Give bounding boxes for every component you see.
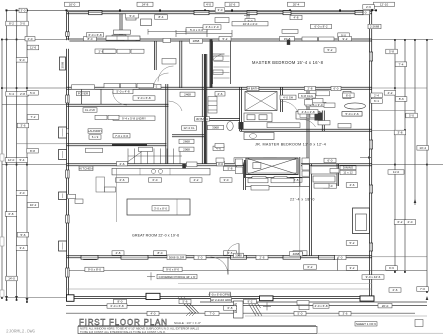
window south wall 4 bbox=[319, 255, 335, 259]
right dim box 6 bbox=[384, 91, 396, 96]
svg-text:8'-8: 8'-8 bbox=[30, 149, 35, 153]
porch step line y289 bbox=[67, 288, 373, 290]
long box row 267-300 bbox=[267, 123, 300, 128]
svg-text:3'-6: 3'-6 bbox=[343, 312, 348, 316]
dim box m43 bbox=[252, 178, 265, 182]
dim box m52 bbox=[293, 251, 307, 255]
svg-text:20'-4: 20'-4 bbox=[293, 2, 300, 6]
porch stair DN box bbox=[234, 301, 244, 318]
dim tick s9 bbox=[26, 164, 28, 166]
ext line left y164.5 bbox=[2, 164, 67, 166]
kitchen box 104 bbox=[105, 187, 116, 192]
svg-text:6'-0 x 6'-8: 6'-0 x 6'-8 bbox=[89, 33, 102, 37]
dim box m16 bbox=[180, 92, 195, 96]
edge bubble 2 bbox=[0, 237, 4, 246]
ext line right y39.5 bbox=[372, 39, 433, 41]
master closet shelf boxes bbox=[213, 56, 223, 74]
svg-text:5'-0: 5'-0 bbox=[409, 114, 414, 118]
entry box row 2 bbox=[251, 185, 269, 190]
dim box m40 bbox=[149, 178, 162, 182]
dim box m31 bbox=[388, 170, 404, 174]
dim box m11 bbox=[84, 37, 97, 41]
svg-text:2'-6: 2'-6 bbox=[218, 92, 223, 96]
left dim box 6 bbox=[27, 91, 39, 96]
dim box m14 bbox=[113, 89, 133, 93]
svg-text:SCALE : 1/4" = 1'-0": SCALE : 1/4" = 1'-0" bbox=[174, 321, 201, 325]
dim box m61 bbox=[244, 299, 257, 303]
dim tick s6 bbox=[26, 87, 28, 89]
dim box m19 bbox=[299, 94, 316, 98]
svg-text:6'-0 x 6'-8: 6'-0 x 6'-8 bbox=[111, 304, 124, 308]
master closet wall bbox=[213, 42, 231, 85]
dim box m27 bbox=[179, 139, 194, 143]
svg-text:10'-6 x 4'-0: 10'-6 x 4'-0 bbox=[243, 22, 258, 26]
dark linen wall core bbox=[204, 54, 206, 164]
closet door arc bbox=[113, 92, 128, 106]
right dim box 9 bbox=[394, 130, 406, 135]
ext y130 right bbox=[372, 129, 405, 131]
svg-text:2'-8: 2'-8 bbox=[308, 87, 313, 91]
den label box bbox=[162, 59, 176, 65]
stair west wall x300 bbox=[299, 157, 301, 186]
dark jamb 287 bbox=[287, 40, 290, 45]
svg-text:12'-10: 12'-10 bbox=[380, 2, 389, 6]
svg-text:4'-8: 4'-8 bbox=[116, 251, 121, 255]
dark stair head segment bbox=[112, 144, 147, 146]
extra dim box 10 bbox=[340, 165, 356, 169]
bottom right faint line bbox=[318, 332, 443, 334]
extra dim box 12 bbox=[79, 166, 93, 170]
dim box m5 bbox=[290, 15, 302, 19]
dim tick s17 bbox=[426, 39, 428, 41]
dim box m69 bbox=[355, 322, 377, 326]
right dim box 13 bbox=[404, 220, 416, 225]
svg-text:5'-8: 5'-8 bbox=[389, 50, 394, 54]
foyer closet divider 2 bbox=[100, 89, 102, 104]
top dim box 4 bbox=[288, 2, 305, 6]
svg-text:6'-0 x 8'-2: 6'-0 x 8'-2 bbox=[315, 25, 328, 29]
svg-text:8'-2: 8'-2 bbox=[9, 22, 14, 26]
svg-text:5'-0: 5'-0 bbox=[130, 14, 135, 18]
title underline bbox=[78, 325, 316, 327]
dim box m64 bbox=[224, 306, 237, 310]
dim box m35 bbox=[324, 158, 336, 162]
left dim box 13 bbox=[27, 203, 39, 208]
porch stair left hatch bbox=[178, 298, 199, 314]
svg-text:COVERED PORCH 44' x 9': COVERED PORCH 44' x 9' bbox=[159, 275, 196, 279]
mud cabinets bbox=[112, 30, 131, 38]
dim tick t11 bbox=[375, 9, 377, 11]
svg-text:5'-8: 5'-8 bbox=[228, 167, 233, 171]
svg-text:14'-0: 14'-0 bbox=[8, 277, 15, 281]
window left wall 1 bbox=[66, 95, 69, 103]
jr bath toilet bbox=[227, 122, 233, 131]
svg-text:5'-6: 5'-6 bbox=[183, 300, 188, 304]
dark jamb x240 bbox=[239, 122, 244, 129]
hall east wall x166.5 bbox=[166, 84, 168, 164]
dim box m60 bbox=[179, 299, 191, 303]
exterior right wall bbox=[370, 12, 372, 299]
linen shelving bbox=[208, 97, 217, 114]
dim box m57 bbox=[157, 274, 197, 278]
bath wall x240 bbox=[240, 87, 242, 131]
dim box m34 bbox=[264, 158, 277, 162]
right dim box 12 bbox=[394, 220, 406, 225]
vanity right boxes bbox=[342, 112, 362, 117]
svg-text:9'-0: 9'-0 bbox=[20, 58, 25, 62]
ext y110.5 right bbox=[372, 110, 415, 112]
top crosshair bbox=[244, 13, 250, 19]
svg-text:GREAT ROOM 22'-0 x 19'-6: GREAT ROOM 22'-0 x 19'-6 bbox=[132, 234, 179, 238]
svg-text:22'-4 x 18'-0: 22'-4 x 18'-0 bbox=[290, 198, 315, 202]
svg-text:6'-0: 6'-0 bbox=[334, 87, 339, 91]
svg-text:7'-4: 7'-4 bbox=[399, 62, 404, 66]
svg-text:4'-0: 4'-0 bbox=[206, 2, 211, 6]
left dim box 2 bbox=[27, 45, 39, 50]
laundry appliance 2 bbox=[126, 16, 136, 21]
dim box m62 bbox=[313, 304, 329, 308]
right band box 1 bbox=[318, 121, 330, 125]
extra dim box 4 bbox=[215, 8, 225, 12]
jr bath north wall bbox=[198, 119, 240, 121]
dining wall x309.5 bbox=[310, 164, 312, 256]
svg-text:KITCHEN: KITCHEN bbox=[79, 167, 92, 171]
bottom dim line c bbox=[66, 312, 415, 314]
extra dim box 7 bbox=[167, 255, 186, 259]
extra dim box 6 bbox=[210, 298, 232, 302]
title hatch marks bbox=[186, 312, 196, 316]
left dim box 8 bbox=[17, 123, 29, 128]
dim box m4 bbox=[311, 24, 332, 28]
extra dim box 15 bbox=[88, 129, 102, 133]
left dim string A bbox=[1, 40, 3, 299]
closet wall x120.5 bbox=[120, 14, 122, 39]
dim box m22 bbox=[113, 134, 130, 138]
dark entry closet core bbox=[244, 160, 246, 178]
window south wall 1 bbox=[121, 255, 148, 259]
dim tick s10 bbox=[1, 297, 3, 299]
svg-text:3068: 3068 bbox=[212, 126, 219, 130]
dim box m9 bbox=[339, 37, 352, 41]
left wall label box 2 bbox=[59, 192, 67, 200]
svg-text:2068: 2068 bbox=[183, 148, 190, 152]
dark cabinet bbox=[315, 113, 323, 121]
svg-text:CL 2'x6': CL 2'x6' bbox=[85, 108, 96, 112]
dim tick s21 bbox=[426, 164, 428, 166]
svg-text:4'-2: 4'-2 bbox=[388, 91, 393, 95]
arrow x415 mid bbox=[414, 199, 417, 203]
fireplace bbox=[353, 208, 370, 234]
svg-text:24'-8: 24'-8 bbox=[142, 2, 149, 6]
svg-text:8'-0: 8'-0 bbox=[88, 37, 93, 41]
svg-text:11'-0: 11'-0 bbox=[393, 170, 400, 174]
left dim box 17 bbox=[6, 276, 17, 281]
entry box row 1 bbox=[248, 178, 294, 183]
svg-text:6'-8: 6'-8 bbox=[9, 212, 14, 216]
svg-text:9'-0 x 8'-0: 9'-0 x 8'-0 bbox=[166, 268, 179, 272]
stair box 145 bbox=[139, 147, 153, 151]
svg-text:5'-6: 5'-6 bbox=[228, 251, 233, 255]
svg-text:11 x 12: 11 x 12 bbox=[343, 171, 353, 175]
svg-text:5'-0: 5'-0 bbox=[30, 91, 35, 95]
svg-text:2'-0: 2'-0 bbox=[408, 220, 413, 224]
hall wall x210.5 bbox=[210, 40, 212, 89]
left dim box 4 bbox=[6, 92, 17, 97]
bath wall x307.5 bbox=[307, 87, 309, 164]
left dim box 3 bbox=[16, 58, 28, 63]
wc door arc bbox=[300, 119, 316, 127]
pantry wall x180 bbox=[180, 41, 182, 89]
ext line right y164.5 bbox=[372, 164, 443, 166]
exterior top wall bbox=[67, 12, 373, 14]
dim box m24 bbox=[208, 125, 224, 129]
ext y88 right bbox=[372, 87, 427, 89]
svg-text:9'-0 x 44'-6: 9'-0 x 44'-6 bbox=[366, 275, 381, 279]
extra dim box 19 bbox=[368, 24, 381, 28]
svg-text:9'-2: 9'-2 bbox=[343, 37, 348, 41]
dim tick s14 bbox=[394, 39, 396, 41]
dim box m10 bbox=[25, 37, 35, 41]
window left wall 3 bbox=[66, 215, 69, 223]
svg-text:6'-0 x 6'-8 OPNG: 6'-0 x 6'-8 OPNG bbox=[209, 292, 232, 296]
interior wall y39.5 bbox=[67, 39, 373, 41]
svg-text:3'-8: 3'-8 bbox=[398, 131, 403, 135]
extra dim box 24 bbox=[195, 117, 210, 121]
left wall label box 0 bbox=[59, 127, 67, 138]
svg-text:2'-8: 2'-8 bbox=[294, 178, 299, 182]
vanity under shower bbox=[244, 113, 272, 122]
dim tick s22 bbox=[394, 271, 396, 273]
dim tick s5 bbox=[16, 87, 18, 89]
stair newel dark bbox=[182, 164, 186, 169]
top dim box 3 bbox=[225, 2, 239, 6]
dim tick s16 bbox=[414, 39, 416, 41]
svg-text:2'-6: 2'-6 bbox=[393, 288, 398, 292]
porch crosshair 2 bbox=[263, 302, 271, 310]
note box bbox=[78, 326, 317, 333]
east wall y164 segment bbox=[301, 164, 372, 166]
dim tick t3 bbox=[66, 9, 68, 11]
dining extra boxes bbox=[314, 169, 339, 189]
box 316-330 bbox=[316, 91, 330, 96]
svg-text:6'-0: 6'-0 bbox=[338, 256, 343, 260]
svg-text:2'-6: 2'-6 bbox=[366, 5, 371, 9]
thin line y316 bbox=[245, 315, 427, 317]
porch stair right hatch bbox=[246, 299, 263, 317]
window left wall 2 bbox=[66, 170, 69, 178]
right dim box 14 bbox=[346, 241, 358, 246]
dim box m50 bbox=[224, 251, 237, 255]
extra dim box 5 bbox=[209, 292, 232, 296]
dim tick s0 bbox=[1, 39, 3, 41]
extra dim box 23 bbox=[331, 86, 341, 90]
jr arrow tick bbox=[360, 156, 371, 158]
edge bubble 3 bbox=[0, 290, 4, 297]
svg-text:3'-0: 3'-0 bbox=[21, 9, 26, 13]
svg-text:5'-4: 5'-4 bbox=[20, 158, 25, 162]
dim box m47 bbox=[112, 251, 124, 255]
svg-text:7'-0: 7'-0 bbox=[420, 287, 425, 291]
svg-text:10'-6: 10'-6 bbox=[229, 2, 236, 6]
svg-text:10'-4: 10'-4 bbox=[419, 146, 426, 150]
porch post left bbox=[67, 295, 75, 302]
dim box m8 bbox=[280, 37, 295, 41]
stairs diagonal bbox=[126, 149, 146, 164]
svg-text:6'-0: 6'-0 bbox=[346, 94, 351, 98]
foyer closet divider 1 bbox=[81, 89, 83, 104]
left dim box 11 bbox=[27, 148, 39, 153]
right dim box 4 bbox=[395, 62, 407, 67]
extra dim box 14 bbox=[60, 129, 69, 133]
svg-text:10'-2: 10'-2 bbox=[30, 203, 37, 207]
cabinet band y36 bbox=[106, 36, 140, 40]
svg-text:3'-0: 3'-0 bbox=[198, 256, 203, 260]
stairs treads bbox=[128, 149, 180, 164]
extra dim box 21 bbox=[247, 86, 259, 90]
dim box m12 bbox=[124, 37, 136, 41]
left dim box 7 bbox=[27, 115, 39, 120]
top dim box 0 bbox=[65, 2, 80, 6]
entry closet wall bbox=[244, 164, 246, 190]
svg-text:3'-2: 3'-2 bbox=[350, 266, 355, 270]
svg-text:6'-1: 6'-1 bbox=[374, 99, 379, 103]
svg-text:3'-0: 3'-0 bbox=[218, 8, 223, 12]
svg-text:6'-0: 6'-0 bbox=[153, 178, 158, 182]
dim tick s20 bbox=[394, 164, 396, 166]
svg-text:2668: 2668 bbox=[183, 140, 190, 144]
porch post right bbox=[360, 296, 374, 301]
right dim box 0 bbox=[338, 33, 350, 38]
extra dim box 26 bbox=[339, 311, 351, 315]
svg-text:4'-0 SH: 4'-0 SH bbox=[283, 96, 293, 100]
ext line left y39.5 bbox=[2, 39, 67, 41]
dim tick s4 bbox=[1, 87, 3, 89]
exterior left wall bbox=[67, 12, 69, 299]
dim tick s11 bbox=[6, 299, 8, 301]
svg-text:2868: 2868 bbox=[193, 39, 200, 43]
porch rear edge bbox=[67, 297, 373, 299]
svg-text:6'-4: 6'-4 bbox=[9, 92, 14, 96]
top dim box 6 bbox=[19, 8, 27, 12]
kitchen sink bbox=[151, 169, 162, 173]
svg-text:3'-0: 3'-0 bbox=[224, 178, 229, 182]
interior wall y88 bbox=[67, 87, 373, 89]
left wall label box 1 bbox=[59, 150, 67, 160]
dim box m15 bbox=[133, 96, 155, 100]
vanity master bbox=[296, 112, 320, 120]
dim box m45 bbox=[324, 184, 337, 188]
extra dim box 16 bbox=[89, 135, 101, 139]
extra dim box 9 bbox=[234, 253, 244, 257]
porch post center bbox=[146, 293, 273, 300]
svg-text:12'-0: 12'-0 bbox=[8, 158, 15, 162]
svg-text:5'-2: 5'-2 bbox=[350, 241, 355, 245]
right dim box 17 bbox=[346, 266, 358, 271]
svg-text:2'-4: 2'-4 bbox=[374, 94, 379, 98]
svg-text:4068: 4068 bbox=[293, 252, 300, 256]
dim box m59 bbox=[114, 299, 127, 303]
right dim box 5 bbox=[343, 93, 355, 98]
dim box m6 bbox=[190, 39, 203, 43]
extra dim box 8 bbox=[290, 252, 303, 256]
jr bath south wall bbox=[172, 135, 206, 137]
svg-text:5'-0: 5'-0 bbox=[298, 312, 303, 316]
svg-text:3068: 3068 bbox=[61, 61, 65, 68]
svg-text:3'-0: 3'-0 bbox=[20, 22, 25, 26]
extra dim box 2 bbox=[186, 28, 207, 32]
svg-text:4'-6 x 2'-8: 4'-6 x 2'-8 bbox=[302, 110, 315, 114]
right dim box 16 bbox=[386, 266, 398, 271]
svg-text:3'-0 x 6'-8: 3'-0 x 6'-8 bbox=[138, 96, 151, 100]
dim box m7 bbox=[219, 37, 231, 41]
dim box m49 bbox=[194, 255, 206, 259]
svg-text:5'-2: 5'-2 bbox=[223, 37, 228, 41]
window right wall 2 bbox=[369, 185, 372, 193]
svg-text:4'-6: 4'-6 bbox=[350, 183, 355, 187]
dim box m20 bbox=[306, 102, 326, 106]
dining cab wall bbox=[337, 164, 339, 186]
svg-text:3'-0 x 8'-0: 3'-0 x 8'-0 bbox=[154, 207, 167, 211]
dim box m66 bbox=[205, 311, 219, 315]
svg-text:9'-0 x 8'-0: 9'-0 x 8'-0 bbox=[88, 268, 101, 272]
svg-text:2'-6: 2'-6 bbox=[120, 178, 125, 182]
right dim string D bbox=[426, 40, 428, 292]
svg-text:DINING: DINING bbox=[343, 166, 354, 170]
interior wall y164.5 west bbox=[67, 164, 247, 166]
dim box m3 bbox=[232, 22, 268, 26]
svg-text:W/ 2-2x10 HDR: W/ 2-2x10 HDR bbox=[210, 298, 232, 302]
dim tick t7 bbox=[231, 9, 233, 11]
master door arc bbox=[211, 54, 225, 68]
svg-text:8'-0: 8'-0 bbox=[118, 300, 123, 304]
wc boxes right bbox=[312, 99, 335, 108]
stair well vline x299 lower bbox=[299, 186, 301, 256]
extra dim box 11 bbox=[340, 170, 356, 174]
svg-text:7'-2: 7'-2 bbox=[31, 115, 36, 119]
svg-text:4'-8: 4'-8 bbox=[294, 16, 299, 20]
window south wall 3 bbox=[283, 255, 301, 259]
window left wall 4 bbox=[66, 268, 69, 277]
svg-text:3'-4: 3'-4 bbox=[20, 246, 25, 250]
dim box m65 bbox=[378, 304, 392, 308]
dining hutch bbox=[311, 166, 337, 182]
right dim box 8 bbox=[406, 113, 418, 118]
jr bath vanity bbox=[244, 133, 274, 140]
svg-text:9'-2: 9'-2 bbox=[248, 300, 253, 304]
svg-text:5'-6: 5'-6 bbox=[21, 233, 26, 237]
svg-text:4'-0 x 6'-8: 4'-0 x 6'-8 bbox=[315, 304, 328, 308]
laundry long box row bbox=[95, 115, 119, 119]
dim tick t0 bbox=[6, 9, 8, 11]
right dim box 3 bbox=[386, 49, 398, 54]
dim box m42 bbox=[220, 178, 232, 182]
svg-text:5'-2: 5'-2 bbox=[328, 48, 333, 52]
dim tick s1 bbox=[6, 39, 8, 41]
entry wall boxes bbox=[252, 177, 287, 181]
small box right low bbox=[415, 320, 423, 327]
window top wall 4 bbox=[355, 11, 363, 15]
extra dim box 20 bbox=[324, 48, 336, 52]
svg-text:6'-8 CLG: 6'-8 CLG bbox=[301, 94, 314, 98]
svg-text:11'-6: 11'-6 bbox=[30, 46, 37, 50]
ext line left y104.5 bbox=[2, 104, 67, 106]
svg-text:9'-6: 9'-6 bbox=[389, 266, 394, 270]
foyer closet box row bbox=[72, 85, 95, 89]
dim box m2 bbox=[245, 19, 255, 23]
master bath tub bbox=[345, 103, 366, 109]
svg-text:8'-4: 8'-4 bbox=[159, 15, 164, 19]
bath divider wall y130 bbox=[240, 129, 372, 131]
